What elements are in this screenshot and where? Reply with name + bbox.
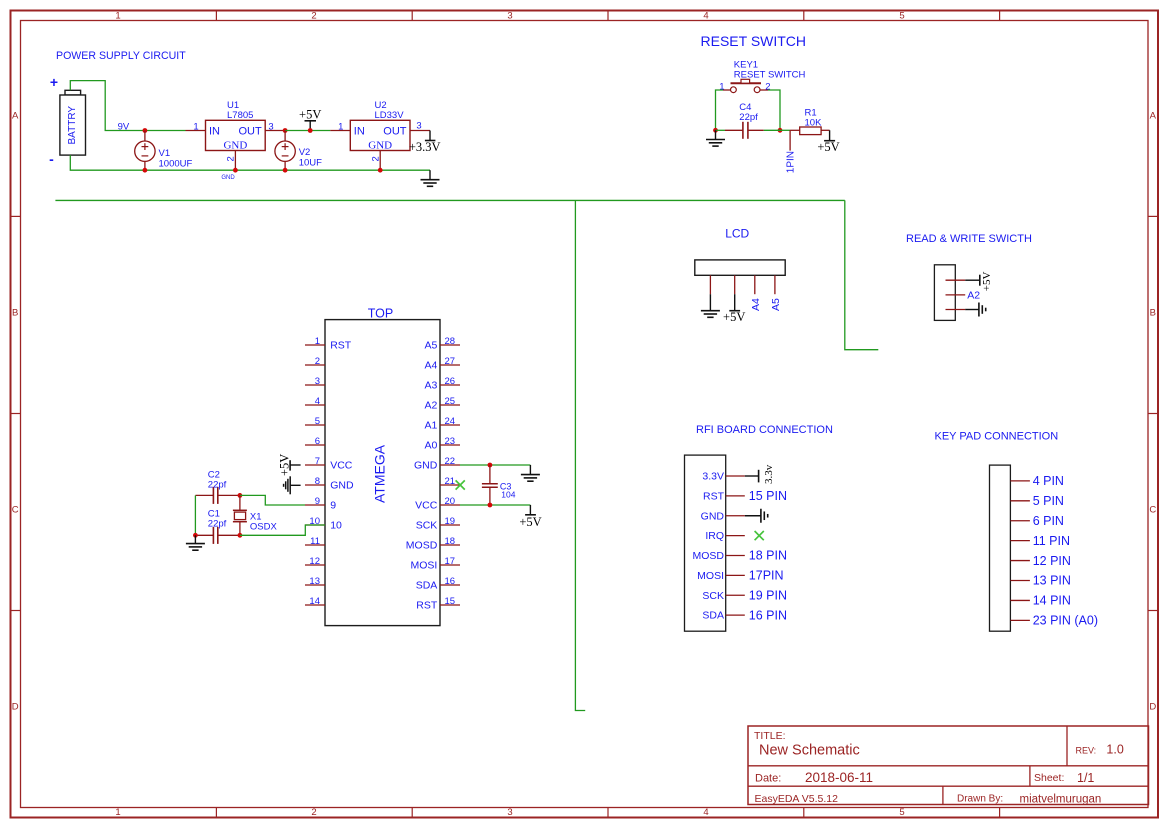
ground RW xyxy=(965,309,979,311)
svg-text:19 PIN: 19 PIN xyxy=(749,588,787,602)
U1 pin 1 IN xyxy=(186,130,206,132)
LCD pin 3 A4 xyxy=(754,275,756,294)
svg-text:TITLE:: TITLE: xyxy=(754,730,786,742)
svg-text:GND: GND xyxy=(701,510,725,522)
svg-text:MOSI: MOSI xyxy=(697,570,724,582)
U3 pin 26 xyxy=(440,384,460,386)
svg-text:10K: 10K xyxy=(805,117,823,128)
svg-text:+5V: +5V xyxy=(981,271,993,291)
RFI pin RST xyxy=(726,495,745,497)
svg-text:9: 9 xyxy=(330,500,336,512)
U3 pin 14 xyxy=(305,604,325,606)
svg-text:4: 4 xyxy=(315,396,320,407)
svg-text:+5V: +5V xyxy=(299,107,321,121)
svg-text:A2: A2 xyxy=(424,400,437,412)
svg-text:1: 1 xyxy=(115,807,120,818)
connector RFI body xyxy=(685,455,726,631)
pushbutton KEY1 body xyxy=(731,82,762,84)
svg-text:Date:: Date: xyxy=(755,772,781,784)
svg-text:28: 28 xyxy=(445,336,456,347)
capacitor C4 22pf xyxy=(725,129,743,131)
no-connect flag U3 pin21 xyxy=(456,480,465,489)
svg-text:+3.3V: +3.3V xyxy=(409,140,441,154)
U2 pin 2 GND xyxy=(379,151,381,171)
regulator U2 LD33V xyxy=(350,120,410,150)
svg-text:IN: IN xyxy=(209,126,220,138)
wire KEY1 pin2 down xyxy=(768,90,780,130)
svg-text:2018-06-11: 2018-06-11 xyxy=(805,770,873,785)
keypad pin 11 PIN xyxy=(1010,540,1030,542)
svg-text:2: 2 xyxy=(765,81,770,92)
keypad pin 5 PIN xyxy=(1010,500,1030,502)
svg-text:5 PIN: 5 PIN xyxy=(1033,494,1064,508)
svg-text:New Schematic: New Schematic xyxy=(759,742,860,758)
RFI pin SCK xyxy=(726,594,745,596)
svg-text:10UF: 10UF xyxy=(299,157,322,168)
svg-text:1: 1 xyxy=(338,121,343,132)
svg-text:23: 23 xyxy=(445,436,456,447)
svg-text:RST: RST xyxy=(416,600,438,612)
junction U1 OUT / V2 top xyxy=(283,128,288,133)
svg-text:1: 1 xyxy=(115,11,120,22)
svg-text:POWER SUPPLY CIRCUIT: POWER SUPPLY CIRCUIT xyxy=(56,50,186,62)
svg-text:16 PIN: 16 PIN xyxy=(749,608,787,622)
title block frame xyxy=(748,726,1149,805)
keypad pin 6 PIN xyxy=(1010,520,1030,522)
U3 pin 27 xyxy=(440,364,460,366)
svg-text:MOSD: MOSD xyxy=(406,540,438,552)
svg-text:SDA: SDA xyxy=(416,580,438,592)
LCD pin 2 xyxy=(734,275,736,294)
svg-text:1: 1 xyxy=(719,81,724,92)
keypad pin 4 PIN xyxy=(1010,480,1030,482)
svg-text:OUT: OUT xyxy=(238,126,262,138)
power flag +5V LCD xyxy=(734,294,736,311)
KEY1 pin 1 xyxy=(723,89,731,91)
U3 pin 15 xyxy=(440,604,460,606)
svg-text:SCK: SCK xyxy=(702,590,724,602)
svg-text:1/1: 1/1 xyxy=(1077,771,1094,785)
KEY1 pin 2 xyxy=(760,89,768,91)
U3 pin 5 xyxy=(305,424,325,426)
U3 pin 16 xyxy=(440,584,460,586)
junction +5V xyxy=(308,128,313,133)
U3 pin 19 xyxy=(440,524,460,526)
junction C3 bottom xyxy=(488,503,493,508)
svg-text:6 PIN: 6 PIN xyxy=(1033,514,1064,528)
svg-text:5: 5 xyxy=(315,416,320,427)
svg-text:3.3v: 3.3v xyxy=(763,464,775,484)
svg-text:6: 6 xyxy=(315,436,320,447)
U3 pin 11 xyxy=(305,544,325,546)
svg-text:14: 14 xyxy=(309,596,320,607)
capacitor C1 22pf xyxy=(195,534,213,536)
svg-text:1000UF: 1000UF xyxy=(159,158,193,169)
junction V1 bottom xyxy=(143,168,148,173)
U3 pin 13 xyxy=(305,584,325,586)
svg-text:A4: A4 xyxy=(750,298,762,311)
junction U1 GND xyxy=(233,168,238,173)
svg-text:14 PIN: 14 PIN xyxy=(1033,594,1071,608)
U3 pin 4 xyxy=(305,404,325,406)
U3 pin 21 xyxy=(440,484,460,486)
ground at pin22 xyxy=(529,465,531,475)
U3 pin 25 xyxy=(440,404,460,406)
svg-text:17: 17 xyxy=(445,556,456,567)
svg-text:+5V: +5V xyxy=(519,515,541,529)
wire bus to read-write switch xyxy=(845,200,879,349)
wire X1 bottom to U3 pin10 xyxy=(240,525,325,535)
svg-text:RFI BOARD CONNECTION: RFI BOARD CONNECTION xyxy=(696,424,833,436)
power flag +5V at R1 xyxy=(829,130,831,140)
svg-text:-: - xyxy=(49,151,54,167)
svg-text:RESET SWITCH: RESET SWITCH xyxy=(734,69,806,80)
U3 pin 8 xyxy=(305,484,325,486)
svg-text:13: 13 xyxy=(309,576,320,587)
svg-text:4 PIN: 4 PIN xyxy=(1033,474,1064,488)
RFI pin MOSD xyxy=(726,554,745,556)
svg-text:RESET SWITCH: RESET SWITCH xyxy=(701,33,807,49)
RFI pin SDA xyxy=(726,614,745,616)
svg-text:26: 26 xyxy=(445,376,456,387)
U3 pin 6 xyxy=(305,444,325,446)
junction X1 bottom xyxy=(238,533,243,538)
svg-text:A0: A0 xyxy=(424,440,437,452)
svg-text:GND: GND xyxy=(330,480,354,492)
svg-text:1PIN: 1PIN xyxy=(786,151,797,173)
U3 pin 1 xyxy=(305,344,325,346)
svg-text:TOP: TOP xyxy=(368,307,393,321)
svg-text:GND: GND xyxy=(414,460,438,472)
connector read-write switch body xyxy=(934,265,955,321)
RFI pin IRQ xyxy=(726,535,745,537)
svg-text:+: + xyxy=(50,74,58,90)
ruler ticks top/bottom xyxy=(215,11,217,21)
svg-text:MOSI: MOSI xyxy=(410,560,437,572)
svg-text:5: 5 xyxy=(899,807,904,818)
svg-text:B: B xyxy=(1150,307,1156,318)
power flag +5V RW xyxy=(965,279,980,281)
svg-text:1.0: 1.0 xyxy=(1106,743,1123,757)
svg-text:+5V: +5V xyxy=(817,140,839,154)
svg-text:RST: RST xyxy=(330,340,352,352)
RFI pin MOSI xyxy=(726,574,745,576)
svg-text:OUT: OUT xyxy=(383,126,407,138)
svg-text:7: 7 xyxy=(315,456,320,467)
svg-text:C: C xyxy=(12,504,19,515)
ground at RFI GND xyxy=(745,515,761,517)
ground reset xyxy=(715,130,717,139)
power flag 3.3v at RFI xyxy=(745,475,759,477)
svg-text:A5: A5 xyxy=(770,298,782,311)
svg-text:18: 18 xyxy=(445,536,456,547)
svg-text:10: 10 xyxy=(330,520,342,532)
wire X1 top to U3 pin9 xyxy=(240,495,305,505)
power flag +5V at U3 pin7 xyxy=(290,464,301,466)
keypad pin 12 PIN xyxy=(1010,560,1030,562)
junction V1 top xyxy=(143,128,148,133)
svg-text:B: B xyxy=(12,307,18,318)
junction C1 left xyxy=(193,533,198,538)
svg-text:VCC: VCC xyxy=(415,500,438,512)
svg-text:9: 9 xyxy=(315,496,320,507)
wire ground bus horizontal xyxy=(55,199,844,201)
svg-text:3: 3 xyxy=(507,807,512,818)
svg-text:15 PIN: 15 PIN xyxy=(749,489,787,503)
svg-text:Drawn By:: Drawn By: xyxy=(957,793,1003,804)
svg-text:21: 21 xyxy=(445,476,456,487)
RW pin 1 xyxy=(946,279,966,281)
svg-text:104: 104 xyxy=(501,490,515,500)
svg-text:12 PIN: 12 PIN xyxy=(1033,554,1071,568)
svg-text:A5: A5 xyxy=(424,340,437,352)
junction C3 top xyxy=(488,463,493,468)
U3 pin 10 xyxy=(305,524,325,526)
svg-text:22pf: 22pf xyxy=(208,518,227,529)
chip U3 ATMEGA body xyxy=(325,320,440,626)
keypad pin 14 PIN xyxy=(1010,599,1030,601)
ground at U3 pin8 xyxy=(291,484,301,486)
svg-text:16: 16 xyxy=(445,576,456,587)
svg-text:SDA: SDA xyxy=(702,610,724,622)
wire to C4 left xyxy=(716,129,726,131)
svg-text:15: 15 xyxy=(445,596,456,607)
wire battery+ to top rail xyxy=(70,81,185,131)
svg-text:BATTRY: BATTRY xyxy=(67,106,78,145)
svg-text:2: 2 xyxy=(226,156,237,161)
RW pin 2 A2 xyxy=(946,294,966,296)
junction X1 top xyxy=(238,493,243,498)
wire C4 right to junction xyxy=(764,129,780,131)
svg-text:LCD: LCD xyxy=(725,227,749,241)
svg-text:A: A xyxy=(1150,111,1157,122)
power flag +5V on rail xyxy=(309,121,311,131)
junction V2 bottom xyxy=(283,168,288,173)
U3 pin 9 xyxy=(305,504,325,506)
svg-text:READ & WRITE SWICTH: READ & WRITE SWICTH xyxy=(906,233,1032,245)
U3 pin 24 xyxy=(440,424,460,426)
svg-text:GND: GND xyxy=(223,140,247,152)
svg-text:2: 2 xyxy=(370,156,381,161)
svg-text:4: 4 xyxy=(703,11,708,22)
RFI pin 3.3V xyxy=(726,475,745,477)
svg-text:3: 3 xyxy=(507,11,512,22)
svg-text:+5V: +5V xyxy=(723,310,745,324)
ground power rail xyxy=(429,170,431,180)
svg-text:A2: A2 xyxy=(967,290,980,302)
junction U2 GND xyxy=(378,168,383,173)
power flag +3.3V xyxy=(429,131,431,141)
svg-text:IN: IN xyxy=(354,126,365,138)
crystal X1 OSDX xyxy=(239,495,241,510)
svg-text:A3: A3 xyxy=(424,380,437,392)
svg-text:Sheet:: Sheet: xyxy=(1034,772,1064,784)
svg-text:GND: GND xyxy=(221,175,235,181)
U3 pin 20 xyxy=(440,504,460,506)
svg-text:3: 3 xyxy=(416,121,421,132)
svg-text:11 PIN: 11 PIN xyxy=(1033,534,1070,548)
RFI pin GND xyxy=(726,515,745,517)
svg-text:REV:: REV: xyxy=(1076,745,1097,755)
connector LCD body xyxy=(695,260,785,275)
svg-text:VCC: VCC xyxy=(330,460,353,472)
connector keypad body xyxy=(990,465,1011,631)
U3 pin 22 xyxy=(440,464,460,466)
svg-text:22pf: 22pf xyxy=(739,112,758,123)
svg-text:EasyEDA V5.5.12: EasyEDA V5.5.12 xyxy=(755,793,839,805)
wire left rail C2-C1 xyxy=(194,495,196,535)
keypad pin 23 PIN (A0) xyxy=(1010,619,1030,621)
LCD pin 4 A5 xyxy=(774,275,776,294)
svg-text:RST: RST xyxy=(703,490,725,502)
regulator U1 L7805 xyxy=(206,120,266,150)
svg-text:D: D xyxy=(12,701,19,712)
LCD pin 1 xyxy=(709,275,711,294)
voltage source V2 10UF xyxy=(284,131,286,142)
svg-text:9V: 9V xyxy=(118,121,130,132)
svg-text:D: D xyxy=(1149,701,1156,712)
svg-text:8: 8 xyxy=(315,476,320,487)
ground LCD pin1 xyxy=(709,294,711,311)
voltage source V1 1000UF xyxy=(144,131,146,142)
wire ground bus vertical branch xyxy=(575,200,585,710)
U2 pin 3 OUT xyxy=(410,130,430,132)
svg-text:24: 24 xyxy=(445,416,456,427)
wire battery- to bottom rail xyxy=(70,155,430,170)
ruler ticks left/right xyxy=(11,215,21,217)
capacitor C3 104 xyxy=(489,465,491,484)
wire U3 pin22 GND xyxy=(460,464,530,466)
U1 pin 2 GND xyxy=(234,151,236,171)
U2 pin 1 IN xyxy=(330,130,350,132)
power flag +5V at pin20 xyxy=(529,505,531,515)
keypad pin 13 PIN xyxy=(1010,580,1030,582)
U3 pin 17 xyxy=(440,564,460,566)
svg-text:3: 3 xyxy=(315,376,320,387)
svg-text:A4: A4 xyxy=(424,360,437,372)
svg-text:miatvelmurugan: miatvelmurugan xyxy=(1020,793,1102,805)
wire U3 pin20 VCC xyxy=(460,504,530,506)
U3 pin 3 xyxy=(305,384,325,386)
svg-text:18 PIN: 18 PIN xyxy=(749,549,787,563)
svg-text:A1: A1 xyxy=(424,420,437,432)
U3 pin 2 xyxy=(305,364,325,366)
svg-text:A: A xyxy=(12,111,19,122)
svg-text:OSDX: OSDX xyxy=(250,522,278,533)
U1 pin 3 OUT xyxy=(265,130,285,132)
wire KEY1 pin1 down xyxy=(716,90,724,130)
ground crystal network xyxy=(194,535,196,543)
U3 pin 23 xyxy=(440,444,460,446)
svg-text:22pf: 22pf xyxy=(208,479,227,490)
battery BT (BATTRY) xyxy=(65,90,81,95)
svg-text:+5V: +5V xyxy=(278,454,292,476)
U3 pin 12 xyxy=(305,564,325,566)
junction reset right xyxy=(778,128,783,133)
U3 pin 18 xyxy=(440,544,460,546)
svg-text:19: 19 xyxy=(445,516,456,527)
svg-text:2: 2 xyxy=(311,11,316,22)
capacitor C2 22pf xyxy=(195,494,213,496)
U3 pin 28 xyxy=(440,344,460,346)
resistor R1 10K xyxy=(790,129,800,131)
svg-text:ATMEGA: ATMEGA xyxy=(372,444,388,503)
svg-text:3.3V: 3.3V xyxy=(702,471,724,483)
svg-text:11: 11 xyxy=(310,536,320,547)
wire U1 out to U2 in xyxy=(285,130,330,132)
svg-text:5: 5 xyxy=(899,11,904,22)
wire junction to R1 xyxy=(780,129,790,131)
svg-text:20: 20 xyxy=(445,496,456,507)
svg-text:C: C xyxy=(1149,504,1156,515)
svg-text:IRQ: IRQ xyxy=(705,530,724,542)
svg-text:25: 25 xyxy=(445,396,456,407)
svg-text:27: 27 xyxy=(445,356,456,367)
svg-text:12: 12 xyxy=(309,556,320,567)
svg-text:2: 2 xyxy=(311,807,316,818)
RW pin 3 xyxy=(946,309,966,311)
svg-text:GND: GND xyxy=(368,140,392,152)
svg-text:17PIN: 17PIN xyxy=(749,569,784,583)
svg-text:13 PIN: 13 PIN xyxy=(1033,574,1071,588)
no-connect flag RFI IRQ xyxy=(755,531,764,540)
svg-text:KEY PAD CONNECTION: KEY PAD CONNECTION xyxy=(935,430,1059,442)
svg-text:1: 1 xyxy=(193,121,198,132)
svg-text:2: 2 xyxy=(315,356,320,367)
junction reset left xyxy=(713,128,718,133)
svg-text:LD33V: LD33V xyxy=(375,110,405,121)
connector pin 1PIN xyxy=(789,130,791,150)
svg-text:L7805: L7805 xyxy=(227,110,253,121)
svg-text:1: 1 xyxy=(315,336,320,347)
svg-text:3: 3 xyxy=(268,121,273,132)
svg-text:4: 4 xyxy=(703,807,708,818)
svg-text:MOSD: MOSD xyxy=(693,550,725,562)
U3 pin 7 xyxy=(305,464,325,466)
svg-text:SCK: SCK xyxy=(416,520,438,532)
svg-text:23 PIN (A0): 23 PIN (A0) xyxy=(1033,614,1098,628)
svg-text:22: 22 xyxy=(445,456,456,467)
